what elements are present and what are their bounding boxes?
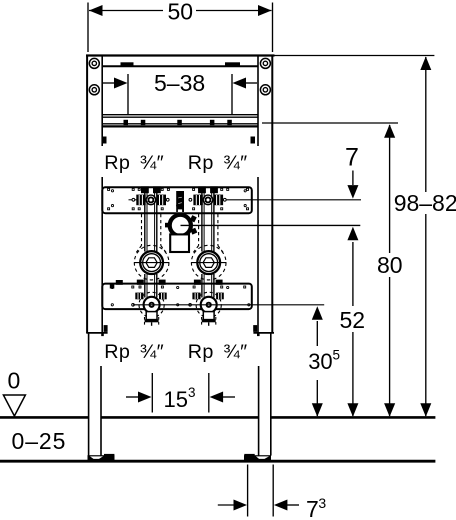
right rail outer line <box>271 56 273 334</box>
ball valve outer circle <box>140 251 163 274</box>
leader line to 7 dimension <box>227 199 361 201</box>
bolt top-left lower <box>89 85 99 95</box>
svg-text:5–38: 5–38 <box>154 70 205 96</box>
label Rp 3/4 lower right <box>183 338 256 366</box>
ball valve axis line <box>134 262 169 264</box>
svg-text:50: 50 <box>168 0 194 25</box>
mixer clamp nub left <box>165 223 168 228</box>
dashed envelope left line <box>141 214 143 246</box>
lower plate clip nuts <box>110 280 223 289</box>
pipe lower segment <box>145 274 157 298</box>
svg-text:7: 7 <box>345 144 359 172</box>
elbow o left <box>189 304 192 307</box>
ball valve hex nut <box>146 258 157 268</box>
svg-text:Rp ¾″: Rp ¾″ <box>104 341 164 363</box>
label Rp 3/4 upper left <box>99 147 172 177</box>
arrowhead left <box>89 5 103 16</box>
top fitting nut left <box>193 195 202 206</box>
floor level 0 line <box>0 416 88 419</box>
right rail inner line upper <box>257 56 259 147</box>
extension line left <box>87 3 89 53</box>
svg-text:0: 0 <box>8 367 21 393</box>
svg-text:30: 30 <box>308 349 332 374</box>
track tooth 2 <box>141 120 146 125</box>
right foot plate <box>244 454 271 461</box>
mixer clamp bolt lower right <box>190 228 197 235</box>
extension line left <box>151 373 153 413</box>
dashed outlet converge left <box>144 317 146 325</box>
left foot plate <box>88 454 115 461</box>
right arrow shaft <box>287 504 299 506</box>
track tooth 1 <box>124 120 129 125</box>
dashed envelope left line <box>198 214 200 246</box>
dashed circle around ball valve <box>191 245 226 280</box>
svg-text:3: 3 <box>188 385 196 400</box>
ball valve outer circle <box>197 251 220 274</box>
bolt top-right lower <box>260 85 270 95</box>
mixer top bar texture <box>178 197 182 203</box>
slider tab right on top crossbar <box>225 62 240 66</box>
pipe upper segment <box>145 188 157 252</box>
right rail bottom cap <box>253 332 274 334</box>
svg-text:Rp ¾″: Rp ¾″ <box>104 152 164 174</box>
ball valve axis line <box>191 262 226 264</box>
top fitting nut right <box>214 195 223 206</box>
label Rp 3/4 upper right <box>183 147 256 177</box>
top fitting o left <box>132 198 135 201</box>
elbow axis leader line to 30-5 dimension <box>133 304 324 306</box>
track line 4 thick <box>103 125 258 127</box>
ball valve middle circle <box>200 254 218 272</box>
elbow outlet cap <box>202 319 216 322</box>
pipe top nuts at plate edge <box>198 186 206 193</box>
right leg inner line <box>258 366 260 456</box>
dashed circle around elbow <box>139 292 164 317</box>
extension line left <box>127 74 129 114</box>
top fitting o left <box>189 198 192 201</box>
dimension line right part <box>196 10 272 12</box>
dashed envelope right line <box>217 214 219 246</box>
left arrowhead <box>114 78 128 89</box>
dashed envelope right line <box>160 214 162 246</box>
elbow outlet tick <box>208 322 210 326</box>
right rail inner line lower <box>257 177 259 333</box>
svg-text:80: 80 <box>377 252 403 278</box>
right arrow shaft <box>223 396 236 398</box>
extension line right <box>231 74 233 114</box>
svg-text:52: 52 <box>340 307 366 333</box>
elbow nut left <box>135 293 143 300</box>
top fitting nut left <box>136 195 145 206</box>
elbow body circle <box>201 297 217 313</box>
extension line right <box>208 373 210 413</box>
left arrow shaft <box>218 504 234 506</box>
ball valve middle circle <box>143 254 161 272</box>
raw floor line <box>0 460 435 463</box>
dimension 30-5 <box>308 306 340 417</box>
track tooth 3 <box>177 120 182 125</box>
rail foot clamp right <box>253 325 257 332</box>
top fitting o right <box>166 198 169 201</box>
left leg outer line <box>88 333 90 456</box>
svg-text:5: 5 <box>333 348 341 363</box>
mixer top bar <box>176 191 184 212</box>
dashed outlet converge right <box>158 317 160 325</box>
ball valve hex nut <box>203 258 214 268</box>
frame top rail line <box>86 54 275 56</box>
mixer clamp ring <box>170 215 191 236</box>
track line 2 <box>103 116 258 118</box>
svg-text:15: 15 <box>164 387 188 412</box>
track line 3 <box>103 123 258 125</box>
pipe lower segment <box>202 274 214 298</box>
track end clamp left <box>103 137 107 144</box>
mixer leader line to 52 dimension <box>181 224 361 226</box>
right leg outer line <box>270 333 272 456</box>
dashed circle around ball valve <box>134 245 169 280</box>
plate holes upper row2 <box>108 205 249 210</box>
upper mounting plate <box>102 187 252 213</box>
extension line left <box>247 465 249 517</box>
elbow nut right <box>216 293 224 300</box>
arrowhead right <box>258 5 272 16</box>
pipe upper segment <box>202 188 214 252</box>
track leader line to 7 dimension <box>262 122 398 124</box>
label Rp 3/4 lower left <box>99 338 172 366</box>
mixer top bar notch <box>178 209 182 212</box>
top fitting nut right <box>157 195 166 206</box>
left rail bottom cap <box>86 332 107 334</box>
elbow o left <box>132 304 135 307</box>
mixer outlet box <box>170 234 189 252</box>
top fitting nut stripes <box>196 195 220 205</box>
svg-text:98–82: 98–82 <box>394 190 456 216</box>
elbow nut stripes <box>195 293 221 299</box>
top fitting axis tick <box>129 199 137 201</box>
right arrow shaft <box>246 82 258 84</box>
left leg inner line <box>100 366 102 456</box>
level symbol triangle <box>3 395 25 416</box>
top fitting screw circle <box>146 195 156 205</box>
svg-text:7: 7 <box>306 496 319 520</box>
track tooth 4 <box>210 120 215 125</box>
track end clamp right <box>251 137 256 144</box>
dimension 52 <box>340 227 366 417</box>
elbow outlet cap <box>145 319 159 322</box>
dashed circle around elbow <box>196 292 221 317</box>
plate holes lower plate <box>111 286 250 306</box>
top fitting screw circle <box>203 195 213 205</box>
dashed outlet converge right <box>215 317 217 325</box>
slider tab left on top crossbar <box>121 62 134 66</box>
left rail inner line upper <box>101 56 103 147</box>
plate holes upper row1 <box>108 188 249 192</box>
elbow nut left <box>192 293 200 300</box>
bolt top-left upper <box>89 58 99 68</box>
svg-text:0–25: 0–25 <box>12 428 67 454</box>
rail foot clamp left <box>104 325 108 332</box>
dashed outlet converge left <box>201 317 203 325</box>
track line 1 <box>103 114 258 116</box>
dashed flare left <box>193 246 198 253</box>
left arrowhead <box>234 500 248 511</box>
left arrow shaft <box>126 396 139 398</box>
top crossbar lower line <box>103 65 258 67</box>
elbow inner circle <box>206 302 212 308</box>
left arrowhead <box>138 392 152 403</box>
elbow outlet tick <box>151 322 153 326</box>
elbow body circle <box>144 297 160 313</box>
left rail inner line lower <box>101 177 103 333</box>
mixer clamp bolt upper right <box>190 215 197 222</box>
right arrowhead <box>274 500 288 511</box>
right arrowhead <box>233 78 247 89</box>
svg-text:Rp ¾″: Rp ¾″ <box>188 341 248 363</box>
elbow nut stripes <box>138 293 164 299</box>
elbow outlet box <box>203 312 214 320</box>
top fitting nut stripes <box>139 195 163 205</box>
extension line right <box>272 3 274 53</box>
elbow nut right <box>159 293 167 300</box>
dashed flare right <box>218 246 223 253</box>
dimension 80 <box>377 124 403 417</box>
dimension line left part <box>89 10 163 12</box>
elbow inner circle <box>149 302 155 308</box>
top fitting o right <box>223 198 226 201</box>
svg-text:Rp ¾″: Rp ¾″ <box>188 152 248 174</box>
pipe top nuts at plate edge <box>141 186 149 193</box>
extension line to 98-82 dimension <box>275 55 435 57</box>
track tooth 5 <box>227 120 232 125</box>
bolt top-right upper <box>260 58 270 68</box>
left rail outer line <box>86 56 88 334</box>
dashed flare left <box>136 246 141 253</box>
svg-text:3: 3 <box>318 495 326 511</box>
dimension 98-82 <box>394 57 456 417</box>
dashed flare right <box>161 246 166 253</box>
extension line right <box>272 465 274 517</box>
lower mounting plate <box>102 284 252 310</box>
dimension 7 (upper small) <box>345 144 359 199</box>
left arrow shaft <box>103 82 115 84</box>
elbow outlet box <box>146 312 157 320</box>
right arrowhead <box>210 392 224 403</box>
